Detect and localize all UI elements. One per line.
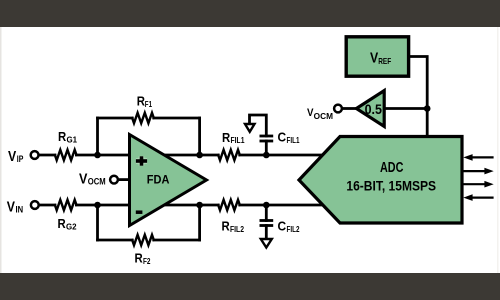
svg-text:FDA: FDA xyxy=(147,173,170,187)
resistor R_F2 xyxy=(132,235,154,245)
ADC arrow 1 (in) xyxy=(463,154,493,161)
svg-text:OCM: OCM xyxy=(314,112,334,121)
ADC arrow 2 (out) xyxy=(464,168,494,175)
wire R_G1 to FDA + input xyxy=(76,154,131,157)
svg-text:IP: IP xyxy=(17,154,24,164)
svg-text:V: V xyxy=(8,148,16,165)
junction dot at C_FIL1 node xyxy=(263,152,270,159)
wire buffer output to bus xyxy=(384,107,427,110)
junction dot at V_REF/buffer bus node xyxy=(424,105,431,112)
junction dot at FDA output top node xyxy=(196,152,203,159)
svg-text:V: V xyxy=(7,199,15,216)
wire V_OCM to FDA mid input xyxy=(119,178,132,181)
op-amp FDA xyxy=(130,135,207,226)
top banner xyxy=(0,0,500,27)
junction dot at FDA output bottom node xyxy=(196,202,203,209)
capacitor C_FIL1 lead bottom xyxy=(265,141,268,155)
wire V_OCM terminal to buffer xyxy=(344,107,357,110)
svg-text:FIL1: FIL1 xyxy=(287,136,300,145)
FDA - sign xyxy=(136,210,143,214)
ground for C_FIL1 xyxy=(245,124,255,132)
ADC block xyxy=(299,137,462,224)
capacitor C_FIL1 plates xyxy=(260,136,274,141)
wire V_IP to R_G1 xyxy=(39,154,55,157)
wire feedback top rail left xyxy=(98,117,133,120)
svg-text:16-BIT, 15MSPS: 16-BIT, 15MSPS xyxy=(346,177,436,193)
wire feedback bottom rail right xyxy=(154,239,200,242)
svg-text:R: R xyxy=(135,251,144,266)
resistor R_FIL2 xyxy=(218,200,240,210)
svg-text:V: V xyxy=(370,50,378,67)
svg-text:R: R xyxy=(58,129,67,144)
svg-text:IN: IN xyxy=(16,205,24,215)
svg-text:ADC: ADC xyxy=(380,160,404,176)
wire V_REF to vertical bus xyxy=(409,57,428,137)
capacitor C_FIL2 plates xyxy=(260,221,274,226)
FDA + sign xyxy=(136,156,147,165)
wire R_FIL1 to ADC top input xyxy=(240,154,323,157)
terminal V_IN xyxy=(31,201,39,209)
svg-text:C: C xyxy=(278,219,287,234)
wire R_FIL2 to ADC bottom input xyxy=(240,204,323,207)
svg-text:F1: F1 xyxy=(145,100,153,109)
wire feedback top left vertical xyxy=(96,118,99,155)
terminal V_OCM (FDA input) xyxy=(110,176,118,184)
svg-text:R: R xyxy=(222,219,231,234)
svg-text:V: V xyxy=(79,170,87,187)
svg-text:0.5: 0.5 xyxy=(365,102,383,117)
svg-text:FIL2: FIL2 xyxy=(287,225,300,234)
left page edge xyxy=(0,27,2,273)
wire V_IN to R_G2 xyxy=(39,204,55,207)
capacitor C_FIL2 lead top xyxy=(265,205,268,221)
wire feedback top rail right xyxy=(154,117,200,120)
ADC arrow 3 (out) xyxy=(464,181,494,188)
svg-text:C: C xyxy=(278,130,287,145)
junction dot at R_G2/FDA- node xyxy=(94,202,101,209)
wire feedback bottom right vertical xyxy=(198,205,201,240)
svg-text:F2: F2 xyxy=(143,257,151,266)
junction dot at C_FIL2 node xyxy=(263,202,270,209)
terminal V_IP xyxy=(31,151,39,159)
svg-text:REF: REF xyxy=(378,56,391,66)
terminal V_OCM (buffer input) xyxy=(334,105,342,113)
svg-text:R: R xyxy=(58,216,67,231)
resistor R_F1 xyxy=(132,113,154,123)
wire feedback bottom left vertical xyxy=(96,205,99,240)
bottom banner xyxy=(0,273,500,300)
svg-text:R: R xyxy=(222,130,231,145)
resistor R_G1 xyxy=(55,150,77,160)
wire FDA output top xyxy=(164,154,218,157)
ADC arrow 4 (in) xyxy=(463,194,493,201)
wire FDA output bottom xyxy=(164,204,218,207)
wire R_G2 to FDA - input xyxy=(76,204,131,207)
svg-text:G1: G1 xyxy=(67,135,78,144)
svg-text:FIL2: FIL2 xyxy=(230,225,244,234)
resistor R_G2 xyxy=(55,200,77,210)
wire feedback top right vertical xyxy=(198,118,201,155)
right page edge xyxy=(497,27,498,273)
ground for C_FIL2 xyxy=(261,239,272,248)
V_REF block U xyxy=(346,37,408,76)
svg-text:G2: G2 xyxy=(66,222,77,231)
resistor R_FIL1 xyxy=(218,150,240,160)
svg-text:FIL1: FIL1 xyxy=(231,136,245,145)
wire feedback bottom rail left xyxy=(98,239,133,242)
svg-text:OCM: OCM xyxy=(88,176,106,186)
junction dot at R_G1/FDA+ node xyxy=(94,152,101,159)
capacitor C_FIL1 lead top and jog to ground xyxy=(250,115,267,136)
buffer amp 0.5 xyxy=(356,91,384,127)
capacitor C_FIL2 lead bottom xyxy=(265,226,268,239)
